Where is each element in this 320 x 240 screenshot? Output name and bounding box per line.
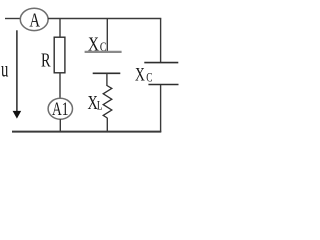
svg-text:A1: A1 (52, 98, 68, 120)
svg-text:L: L (97, 99, 103, 113)
resistor R (54, 37, 65, 73)
svg-text:R: R (41, 48, 51, 71)
svg-text:X: X (135, 63, 145, 85)
capacitor XC right top plate (144, 62, 178, 64)
wire bottom horizontal (12, 131, 161, 133)
ammeter A (20, 8, 48, 31)
label XC right (135, 63, 153, 85)
ammeter A1 (48, 98, 72, 120)
wire top horizontal to right corner (48, 18, 161, 20)
svg-text:A: A (29, 8, 40, 31)
wire from A1 to bottom (59, 119, 61, 132)
capacitor XC middle top plate (gray) (85, 51, 122, 53)
wire top-left segment (5, 18, 21, 20)
wire from top to resistor (59, 19, 61, 38)
label u (1, 58, 9, 83)
voltage arrow u (13, 30, 22, 118)
wire right vertical upper (160, 19, 162, 63)
label R (41, 48, 51, 71)
wire from resistor to ammeter A1 (59, 73, 61, 99)
capacitor XC right bottom plate (148, 84, 178, 86)
svg-text:C: C (146, 71, 152, 85)
label XL (88, 90, 103, 113)
svg-text:u: u (1, 58, 9, 83)
wire middle branch upper (106, 19, 108, 52)
wire right vertical lower (160, 85, 162, 132)
wire between capacitor and inductor (106, 73, 108, 86)
capacitor XC middle bottom plate (93, 72, 121, 74)
label XC middle (88, 32, 107, 55)
inductor XL zigzag (103, 86, 112, 119)
wire middle branch lower (106, 118, 108, 132)
